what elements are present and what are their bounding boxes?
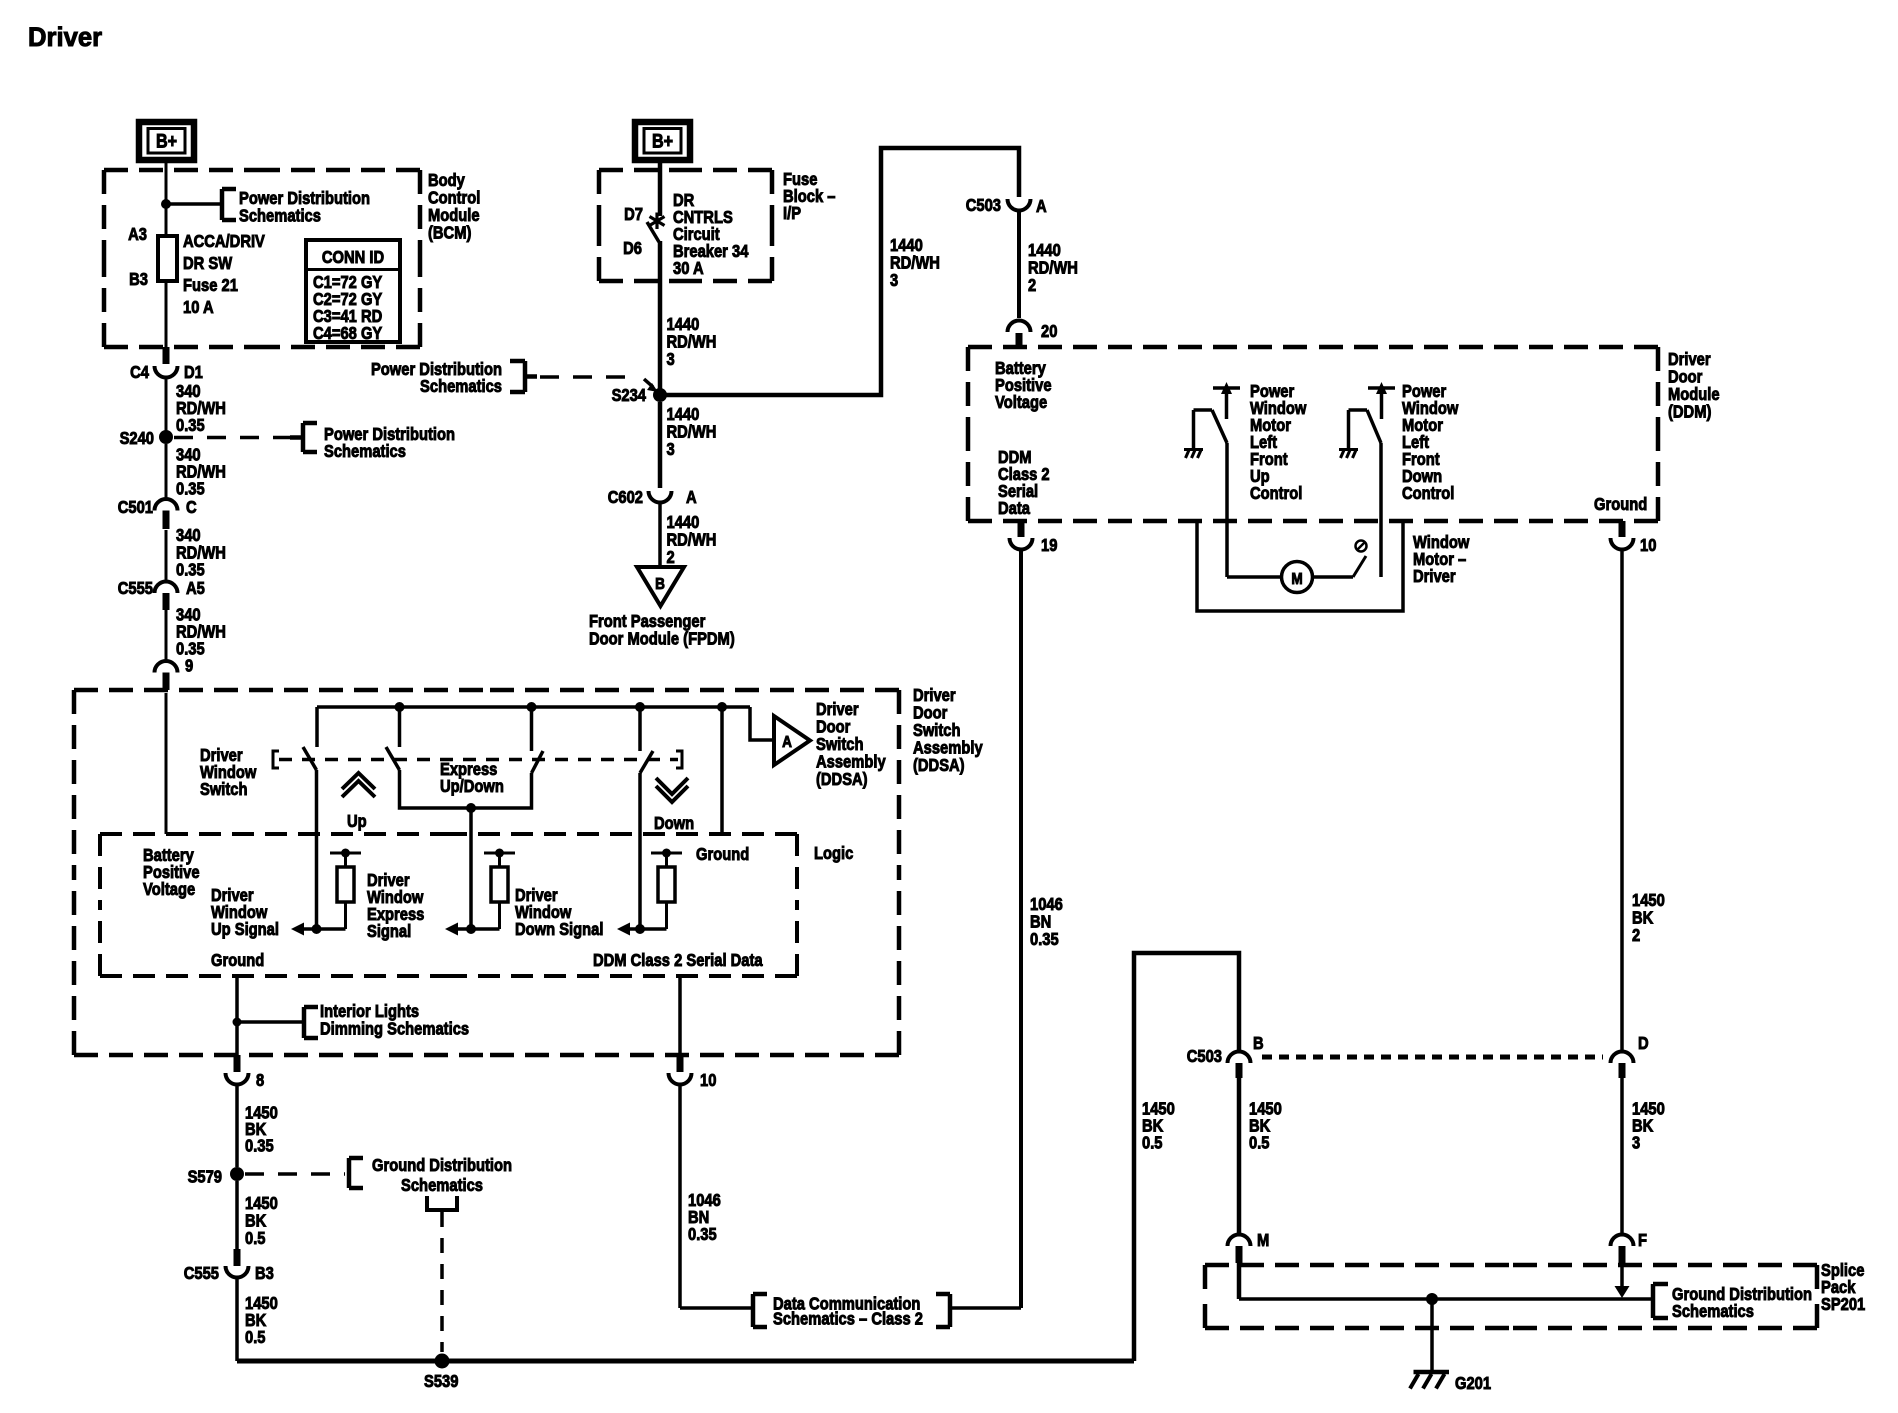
svg-text:0.5: 0.5 <box>1142 1133 1162 1153</box>
svg-text:F: F <box>1638 1231 1647 1251</box>
svg-text:A: A <box>1036 197 1047 217</box>
svg-text:B3: B3 <box>255 1264 274 1284</box>
svg-text:Control: Control <box>1250 484 1302 504</box>
svg-text:C4=68 GY: C4=68 GY <box>313 324 382 344</box>
svg-text:Voltage: Voltage <box>143 880 195 900</box>
svg-text:G201: G201 <box>1455 1374 1491 1394</box>
svg-text:B3: B3 <box>129 270 148 290</box>
svg-text:10: 10 <box>1640 536 1656 556</box>
svg-text:B: B <box>1253 1034 1264 1054</box>
svg-text:0.35: 0.35 <box>1030 930 1059 950</box>
svg-text:(DDM): (DDM) <box>1668 402 1711 422</box>
svg-text:Schematics – Class 2: Schematics – Class 2 <box>773 1309 923 1329</box>
svg-text:C4: C4 <box>130 363 150 383</box>
svg-text:C555: C555 <box>118 579 153 599</box>
svg-text:Data: Data <box>998 499 1031 519</box>
svg-text:Schematics: Schematics <box>324 442 406 462</box>
svg-text:Up/Down: Up/Down <box>440 777 504 797</box>
svg-text:2: 2 <box>1632 926 1640 946</box>
svg-text:Down Signal: Down Signal <box>515 920 603 940</box>
svg-text:A3: A3 <box>128 225 147 245</box>
svg-text:(DDSA): (DDSA) <box>913 756 965 776</box>
svg-text:C503: C503 <box>966 196 1001 216</box>
svg-text:Down: Down <box>654 814 694 834</box>
svg-text:19: 19 <box>1041 536 1057 556</box>
svg-text:(DDSA): (DDSA) <box>816 770 868 790</box>
svg-text:Logic: Logic <box>814 844 853 864</box>
svg-text:Up Signal: Up Signal <box>211 920 279 940</box>
svg-text:Ground: Ground <box>211 951 264 971</box>
svg-text:30 A: 30 A <box>673 259 704 279</box>
svg-text:S240: S240 <box>120 429 154 449</box>
svg-text:Schematics: Schematics <box>420 377 502 397</box>
svg-text:CONN ID: CONN ID <box>322 248 384 268</box>
svg-text:Up: Up <box>347 812 367 832</box>
svg-text:DDM Class 2 Serial Data: DDM Class 2 Serial Data <box>593 951 763 971</box>
svg-text:A: A <box>686 488 697 508</box>
svg-text:C555: C555 <box>184 1264 219 1284</box>
svg-text:Door Module (FPDM): Door Module (FPDM) <box>589 629 735 649</box>
svg-text:0.35: 0.35 <box>176 560 205 580</box>
svg-text:3: 3 <box>667 350 675 370</box>
svg-text:3: 3 <box>667 440 675 460</box>
svg-text:0.35: 0.35 <box>176 416 205 436</box>
svg-text:M: M <box>1257 1231 1269 1251</box>
svg-text:0.35: 0.35 <box>176 479 205 499</box>
svg-text:C: C <box>186 498 197 518</box>
svg-text:D1: D1 <box>184 363 203 383</box>
svg-text:8: 8 <box>256 1071 264 1091</box>
svg-text:10 A: 10 A <box>183 298 214 318</box>
svg-text:M: M <box>1291 571 1302 588</box>
svg-text:C503: C503 <box>1187 1047 1222 1067</box>
svg-text:3: 3 <box>1632 1133 1640 1153</box>
svg-text:Schematics: Schematics <box>401 1176 483 1196</box>
svg-text:2: 2 <box>667 548 675 568</box>
svg-text:10: 10 <box>700 1071 716 1091</box>
svg-text:C602: C602 <box>608 488 643 508</box>
svg-text:Voltage: Voltage <box>995 393 1047 413</box>
svg-text:Driver: Driver <box>28 21 102 52</box>
svg-text:Ground Distribution: Ground Distribution <box>372 1156 512 1176</box>
svg-text:Ground: Ground <box>1594 495 1647 515</box>
svg-text:Schematics: Schematics <box>239 206 321 226</box>
svg-text:Dimming Schematics: Dimming Schematics <box>320 1019 469 1039</box>
svg-text:DR SW: DR SW <box>183 254 233 274</box>
svg-text:0.35: 0.35 <box>688 1225 717 1245</box>
svg-text:0.5: 0.5 <box>245 1328 265 1348</box>
svg-text:Signal: Signal <box>367 922 411 942</box>
svg-text:ACCA/DRIV: ACCA/DRIV <box>183 232 265 252</box>
svg-text:S234: S234 <box>612 386 647 406</box>
svg-text:SP201: SP201 <box>1821 1295 1865 1315</box>
svg-text:2: 2 <box>1028 276 1036 296</box>
svg-text:D7: D7 <box>624 205 643 225</box>
svg-text:B+: B+ <box>652 130 673 152</box>
svg-text:20: 20 <box>1041 322 1057 342</box>
svg-text:D: D <box>1638 1034 1649 1054</box>
svg-text:I/P: I/P <box>783 204 801 224</box>
svg-text:Switch: Switch <box>200 780 248 800</box>
svg-text:Driver: Driver <box>1413 567 1456 587</box>
svg-text:Control: Control <box>1402 484 1454 504</box>
svg-text:S539: S539 <box>424 1372 458 1392</box>
svg-text:S579: S579 <box>188 1167 222 1187</box>
svg-text:3: 3 <box>890 271 898 291</box>
svg-text:Fuse 21: Fuse 21 <box>183 276 238 296</box>
svg-text:Schematics: Schematics <box>1672 1302 1754 1322</box>
svg-text:(BCM): (BCM) <box>428 223 471 243</box>
svg-text:B+: B+ <box>156 130 177 152</box>
svg-text:A: A <box>782 734 792 751</box>
svg-text:B: B <box>655 576 665 593</box>
svg-text:A5: A5 <box>186 579 205 599</box>
svg-text:C501: C501 <box>118 498 153 518</box>
svg-text:Ground: Ground <box>696 845 749 865</box>
svg-text:0.5: 0.5 <box>245 1229 265 1249</box>
svg-text:9: 9 <box>185 656 193 676</box>
svg-text:0.35: 0.35 <box>245 1136 274 1156</box>
svg-text:D6: D6 <box>623 239 642 259</box>
svg-text:0.5: 0.5 <box>1249 1133 1269 1153</box>
